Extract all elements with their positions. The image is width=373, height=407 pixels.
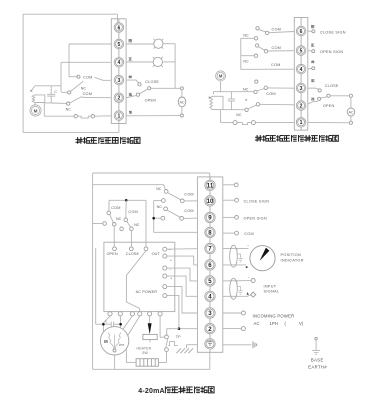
svg-text:OPEN: OPEN	[323, 104, 335, 108]
svg-text:M: M	[104, 339, 108, 344]
svg-text:COM: COM	[83, 75, 92, 79]
svg-text:5: 5	[300, 48, 303, 54]
svg-text:SW: SW	[142, 351, 148, 355]
svg-text:NC: NC	[66, 107, 72, 111]
svg-text:COM: COM	[83, 92, 92, 96]
svg-text:AC: AC	[348, 111, 353, 115]
svg-text:5: 5	[117, 42, 120, 48]
svg-text:EARTH#: EARTH#	[308, 364, 327, 369]
svg-text:NC: NC	[134, 223, 140, 227]
svg-text:OPEN SIGN: OPEN SIGN	[320, 50, 343, 54]
svg-text:OPEN: OPEN	[145, 99, 157, 103]
svg-text:HEATER: HEATER	[137, 346, 152, 350]
svg-text:COM: COM	[184, 209, 193, 213]
svg-text:2: 2	[300, 103, 303, 109]
svg-text:COM: COM	[266, 92, 275, 96]
svg-text:OPEN SIGN: OPEN SIGN	[244, 217, 267, 221]
svg-text:NC: NC	[243, 34, 249, 38]
svg-text:COM: COM	[272, 46, 281, 50]
svg-text:NC: NC	[243, 88, 249, 92]
svg-text:AC: AC	[179, 101, 184, 105]
svg-text:COM: COM	[244, 232, 254, 236]
svg-text:1PH: 1PH	[270, 321, 279, 326]
svg-text:INPUT: INPUT	[264, 284, 277, 288]
svg-text:4-20mA: 4-20mA	[138, 388, 165, 395]
svg-text:COM: COM	[111, 206, 120, 210]
svg-text:NC: NC	[243, 60, 249, 64]
svg-text:TP: TP	[176, 335, 181, 339]
svg-text:CLOSE: CLOSE	[126, 252, 140, 256]
svg-text:NC: NC	[156, 187, 162, 191]
svg-text:OUT: OUT	[152, 252, 161, 256]
svg-text:C: C	[54, 90, 57, 94]
svg-text:MTB: MTB	[119, 343, 125, 347]
svg-text:6: 6	[300, 29, 303, 35]
svg-text:4: 4	[300, 67, 303, 73]
svg-text:3: 3	[117, 78, 120, 84]
svg-text:CLOSE: CLOSE	[325, 84, 339, 88]
svg-text:2: 2	[117, 96, 120, 102]
svg-text:AC: AC	[254, 321, 260, 326]
svg-text:1: 1	[300, 120, 303, 126]
svg-text:INCOMING POWER: INCOMING POWER	[253, 313, 295, 318]
svg-text:+: +	[170, 277, 172, 281]
svg-text:CLOSE SIGN: CLOSE SIGN	[244, 199, 270, 203]
svg-text:3: 3	[300, 86, 303, 92]
svg-text:OPEN: OPEN	[107, 252, 118, 256]
svg-text:M: M	[219, 74, 223, 79]
svg-text:BASE: BASE	[311, 358, 324, 363]
svg-text:CLOSE: CLOSE	[145, 80, 159, 84]
svg-text:+: +	[170, 258, 172, 262]
svg-text:1: 1	[117, 114, 120, 120]
svg-text:−: −	[169, 248, 171, 252]
svg-text:NC: NC	[157, 205, 163, 209]
svg-text:NC: NC	[236, 113, 242, 117]
svg-text:4: 4	[117, 60, 120, 66]
svg-text:NC: NC	[116, 217, 122, 221]
svg-text:POSITION: POSITION	[281, 253, 302, 257]
svg-text:−: −	[247, 243, 249, 247]
svg-text:COM: COM	[272, 28, 281, 32]
svg-text:V): V)	[299, 321, 304, 326]
svg-text:SIGNAL: SIGNAL	[264, 290, 280, 294]
svg-text:−: −	[248, 276, 250, 280]
svg-text:COM: COM	[184, 192, 193, 196]
svg-text:NC: NC	[81, 87, 87, 91]
svg-text:COM: COM	[271, 63, 280, 67]
svg-text:CLOSE SIGN: CLOSE SIGN	[320, 30, 346, 34]
svg-text:M: M	[34, 108, 38, 113]
svg-text:6: 6	[117, 25, 120, 31]
svg-text:10: 10	[207, 198, 214, 205]
svg-text:11: 11	[207, 183, 214, 190]
svg-text:AC POWER: AC POWER	[136, 290, 158, 294]
svg-text:INDICATOR: INDICATOR	[281, 259, 304, 263]
svg-text:COM: COM	[128, 210, 137, 214]
